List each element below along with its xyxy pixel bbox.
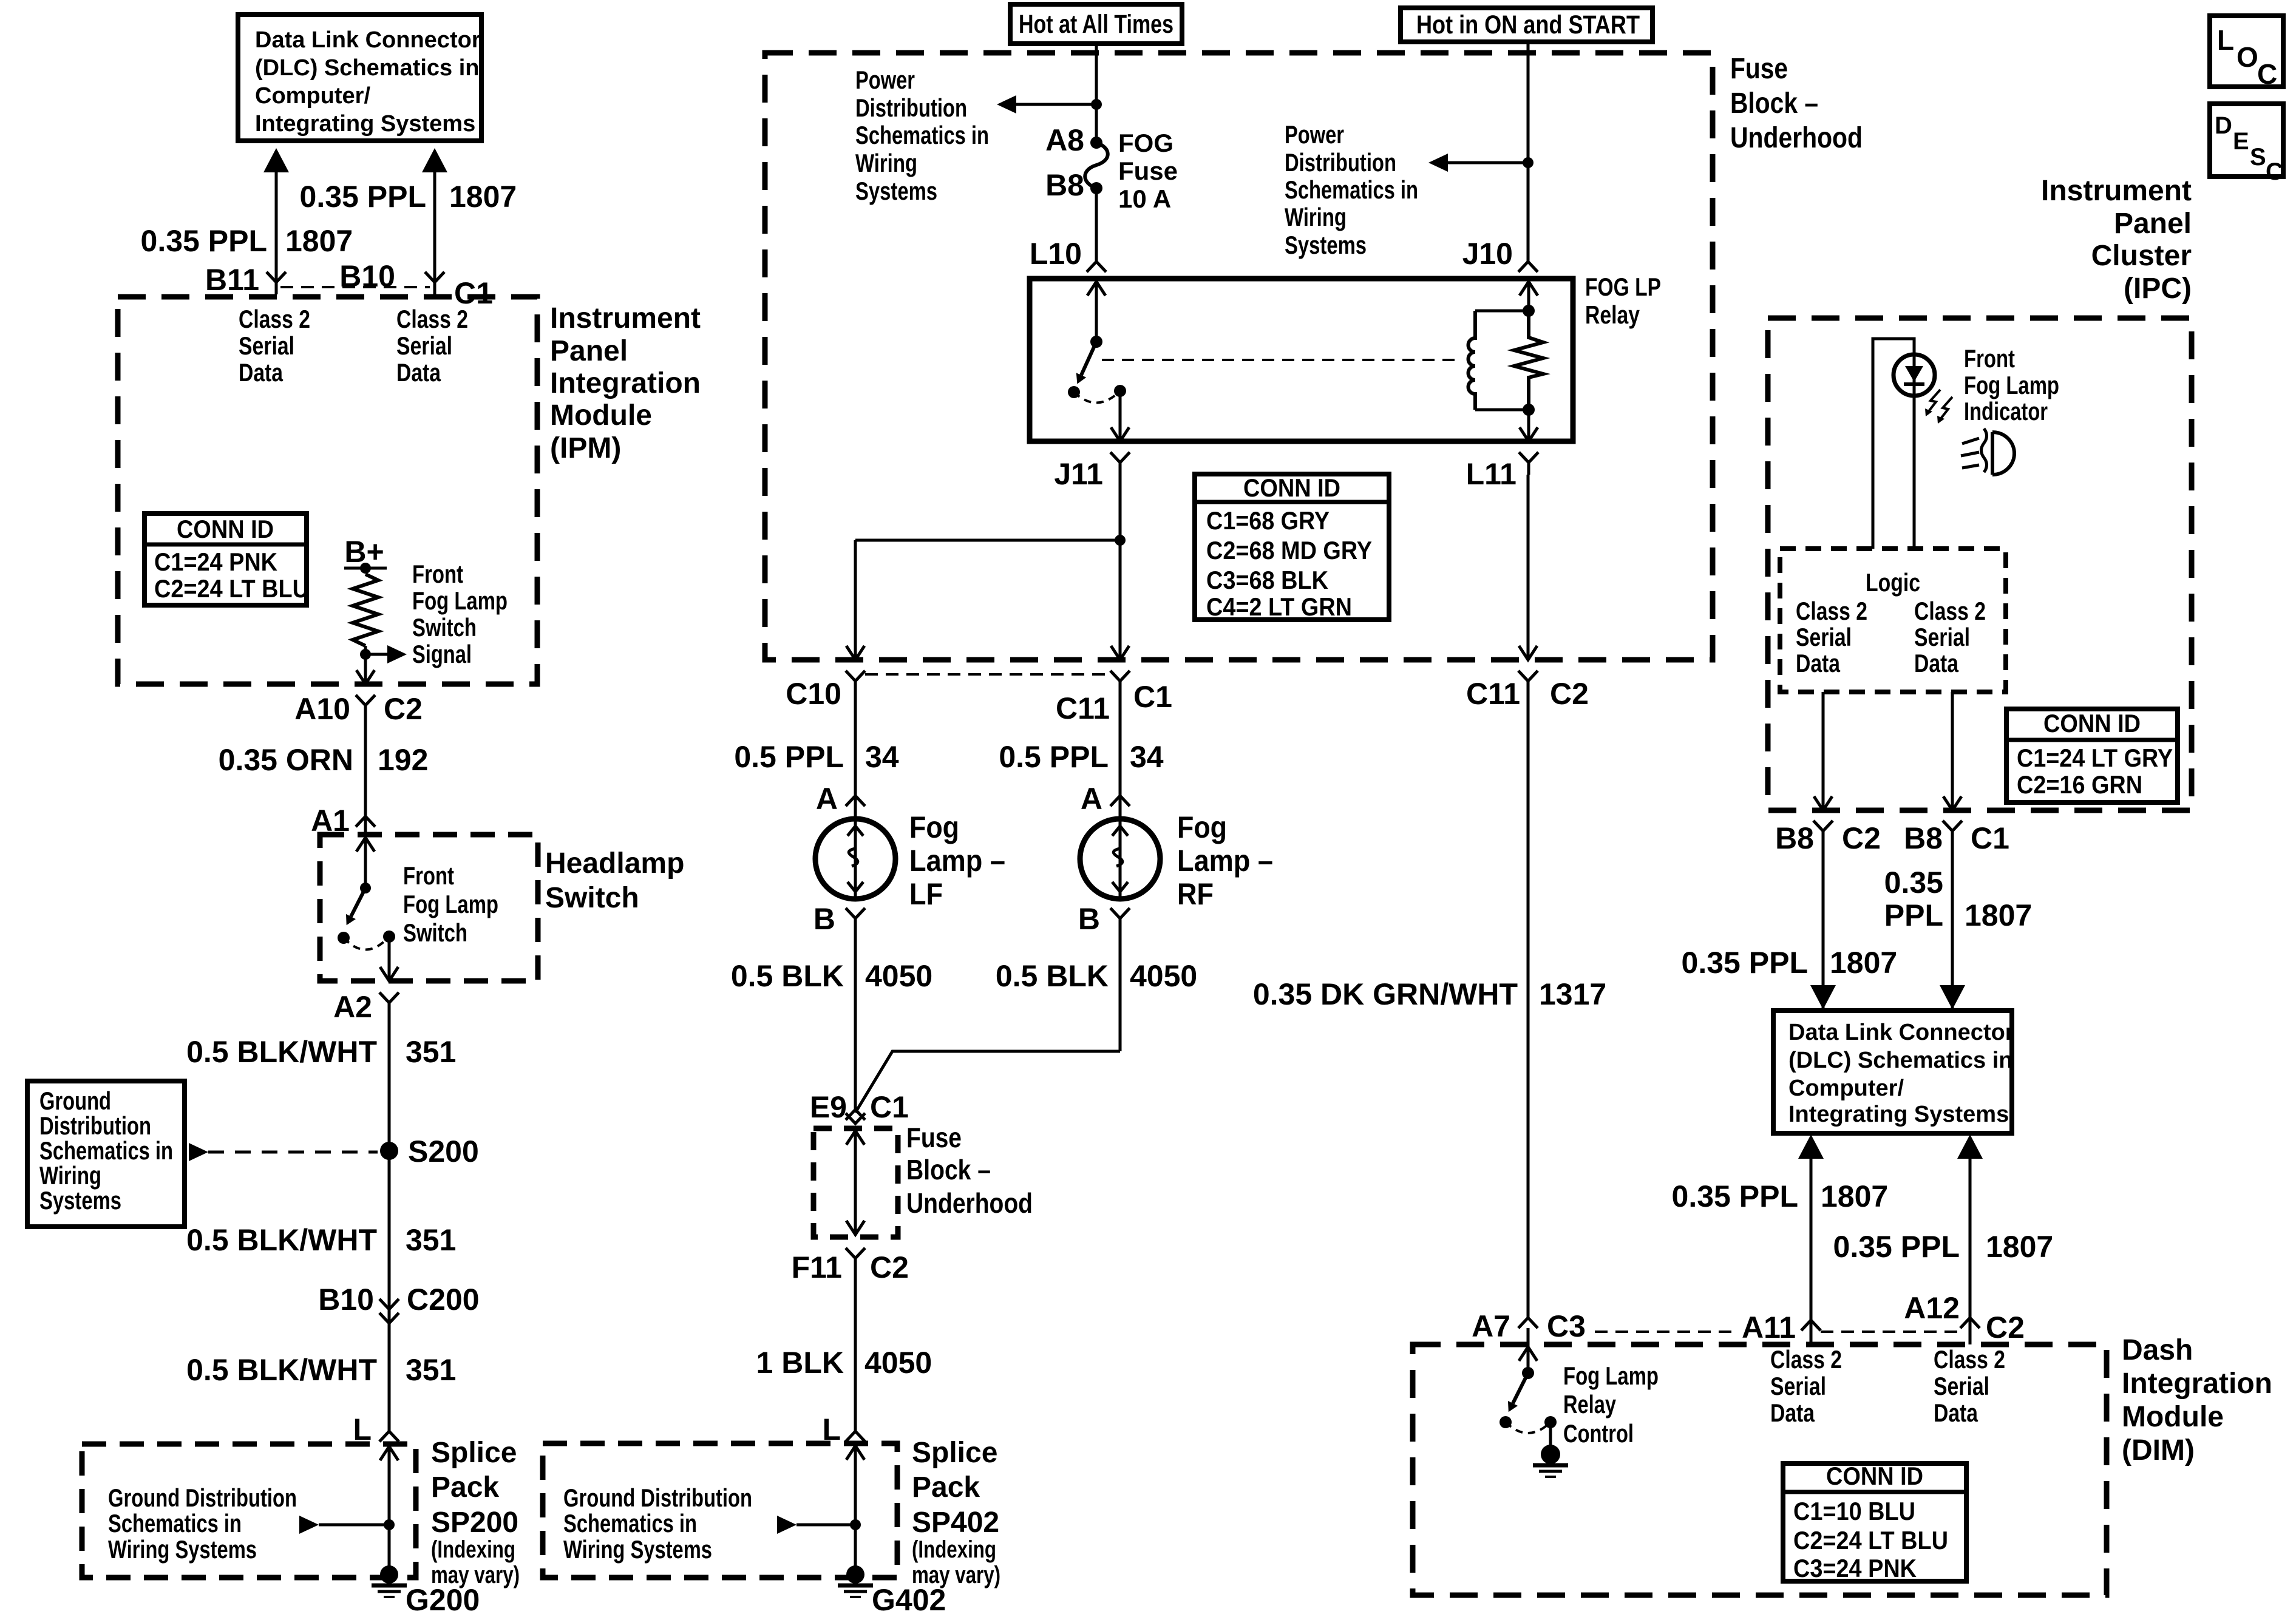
svg-text:0.5 PPL: 0.5 PPL	[734, 740, 844, 774]
svg-text:4050: 4050	[865, 959, 932, 993]
svg-text:Class 2: Class 2	[1770, 1345, 1842, 1374]
arrowhead into DLC box (left)	[1810, 985, 1836, 1009]
wire B11 to DLC (0.35 PPL 1807)	[275, 171, 278, 283]
svg-text:B10: B10	[318, 1283, 374, 1317]
wire A12 to DLC (0.35 PPL 1807)	[1969, 1159, 1972, 1344]
dashed wire to splice S200	[208, 1151, 378, 1154]
arrow at IPC border (to B8/C2)	[1814, 796, 1832, 810]
svg-text:C4=2 LT GRN: C4=2 LT GRN	[1206, 592, 1352, 621]
svg-text:Module: Module	[2122, 1401, 2224, 1433]
svg-text:Lamp –: Lamp –	[909, 844, 1005, 878]
connector F11/C2	[846, 1248, 865, 1270]
svg-text:LF: LF	[909, 877, 943, 911]
svg-text:C1=68 GRY: C1=68 GRY	[1206, 506, 1330, 535]
svg-text:Front: Front	[1964, 344, 2015, 373]
connector C200 lower half	[379, 1313, 399, 1323]
svg-text:(Indexing: (Indexing	[912, 1536, 996, 1563]
IPM CONN ID divider	[144, 543, 307, 547]
svg-text:0.5 BLK: 0.5 BLK	[731, 959, 844, 993]
junction power distribution branch (right)	[1523, 157, 1533, 168]
svg-text:Fog: Fog	[1177, 810, 1227, 844]
svg-text:Serial: Serial	[239, 331, 294, 360]
svg-text:Wiring: Wiring	[39, 1161, 101, 1190]
junction SP402	[850, 1519, 861, 1530]
box: Hot in ON and START	[1401, 8, 1652, 42]
svg-text:Front: Front	[412, 560, 463, 588]
splice S200	[380, 1142, 398, 1160]
fog lamp icon beams	[1961, 438, 1979, 468]
svg-text:Data Link Connector: Data Link Connector	[255, 27, 481, 53]
svg-text:Underhood: Underhood	[906, 1187, 1033, 1219]
box: Data Link Connector (DLC) reference, right	[1773, 1011, 2012, 1133]
svg-text:(Indexing: (Indexing	[431, 1536, 515, 1563]
svg-text:Panel: Panel	[550, 335, 628, 367]
box: LOC tab	[2210, 16, 2283, 87]
svg-text:Wiring Systems: Wiring Systems	[108, 1535, 257, 1564]
wire B10/C1 to DLC (0.35 PPL 1807)	[433, 171, 436, 283]
box: Hot at All Times	[1010, 4, 1182, 44]
svg-text:0.35 PPL: 0.35 PPL	[141, 224, 267, 258]
svg-text:Fog Lamp: Fog Lamp	[1563, 1361, 1659, 1390]
wire A11 to DLC (0.35 PPL 1807)	[1810, 1159, 1813, 1344]
svg-text:A10: A10	[294, 692, 350, 726]
dashed box: Headlamp Switch	[320, 835, 538, 981]
svg-text:A11: A11	[1742, 1310, 1796, 1344]
DIM switch contact right	[1544, 1416, 1557, 1428]
svg-text:C2=24 LT BLU: C2=24 LT BLU	[1793, 1526, 1948, 1554]
wire to power distribution reference (right)	[1448, 161, 1528, 164]
svg-text:Data: Data	[1770, 1398, 1815, 1427]
switch pivot (front fog lamp switch)	[360, 883, 371, 893]
svg-text:1807: 1807	[449, 180, 517, 214]
svg-text:Serial: Serial	[1796, 623, 1852, 651]
svg-text:0.35 PPL: 0.35 PPL	[1833, 1230, 1960, 1264]
svg-text:Computer/: Computer/	[1788, 1076, 1904, 1101]
svg-text:Fog Lamp: Fog Lamp	[1964, 371, 2059, 399]
svg-text:FOG: FOG	[1118, 129, 1173, 157]
svg-text:0.35 ORN: 0.35 ORN	[219, 743, 353, 777]
svg-text:Data: Data	[1796, 649, 1841, 677]
arrow at IPC border (to B8/C1)	[1943, 796, 1961, 810]
svg-text:Ground Distribution: Ground Distribution	[108, 1483, 297, 1512]
svg-text:Fuse: Fuse	[906, 1122, 962, 1153]
svg-text:0.35 PPL: 0.35 PPL	[1672, 1179, 1798, 1213]
svg-text:351: 351	[406, 1223, 456, 1257]
connector C10	[846, 671, 865, 693]
arrow at SP402 border (to L)	[846, 1446, 864, 1460]
arrow at fuse block border (to E9)	[846, 1131, 864, 1145]
thin dashed connector link B11-B10	[280, 286, 430, 288]
svg-text:Schematics in: Schematics in	[108, 1509, 242, 1537]
svg-text:E9: E9	[810, 1090, 847, 1124]
arrow at headlamp switch border (to A1)	[356, 838, 375, 852]
svg-text:1807: 1807	[1830, 946, 1897, 980]
wire relay switch feed	[1095, 282, 1098, 342]
B+ supply stub	[344, 567, 387, 570]
arrow at relay border (to L10)	[1087, 282, 1106, 296]
svg-text:Headlamp: Headlamp	[545, 847, 684, 880]
relay node bottom	[1523, 404, 1535, 416]
dashed box: Fuse Block - Underhood (ground path)	[813, 1128, 898, 1237]
svg-text:0.5 BLK/WHT: 0.5 BLK/WHT	[186, 1353, 377, 1387]
connector L10	[1087, 262, 1106, 272]
svg-text:Splice: Splice	[431, 1437, 517, 1469]
svg-text:Schematics in: Schematics in	[39, 1136, 173, 1165]
svg-text:Instrument: Instrument	[2041, 175, 2192, 207]
svg-text:1317: 1317	[1539, 977, 1606, 1011]
svg-text:RF: RF	[1177, 877, 1214, 911]
wire RF ground drop (0.5 BLK 4050)	[1119, 931, 1122, 1051]
svg-text:Cluster: Cluster	[2091, 240, 2192, 272]
wire Logic to B8/C2	[1822, 692, 1825, 810]
arrow at fuse block border (to F11)	[846, 1221, 864, 1235]
svg-text:(IPC): (IPC)	[2124, 273, 2192, 305]
svg-text:351: 351	[406, 1035, 456, 1069]
svg-text:C2: C2	[1986, 1310, 2025, 1344]
LF lamp filament	[849, 849, 858, 866]
svg-text:C2=24 LT BLU: C2=24 LT BLU	[154, 574, 309, 603]
svg-text:(DLC) Schematics in: (DLC) Schematics in	[255, 55, 480, 81]
wire Hot at All Times to fuse A8	[1095, 41, 1098, 143]
svg-text:(IPM): (IPM)	[550, 432, 621, 464]
svg-text:PPL: PPL	[1884, 898, 1943, 932]
wire relay to L11	[1527, 410, 1530, 441]
wire RF ground joins LF at E9	[855, 1051, 1120, 1113]
svg-text:B8: B8	[1904, 821, 1943, 855]
connector B8/C2	[1813, 821, 1833, 843]
wire switch to A2	[388, 937, 391, 981]
arrowhead from A11 into DLC	[1798, 1134, 1824, 1159]
connector B11 (IPM side)	[267, 272, 286, 294]
DIM switch arm	[1513, 1373, 1528, 1403]
svg-text:34: 34	[865, 740, 899, 774]
svg-text:192: 192	[378, 743, 428, 777]
svg-text:Lamp –: Lamp –	[1177, 844, 1273, 878]
svg-text:Instrument: Instrument	[550, 302, 701, 334]
svg-text:A: A	[816, 782, 838, 816]
fog lamp icon lamp body	[1992, 432, 2014, 475]
svg-text:A7: A7	[1472, 1309, 1510, 1343]
svg-text:C1: C1	[870, 1090, 909, 1124]
switch contact right	[383, 931, 395, 943]
svg-text:Serial: Serial	[396, 331, 452, 360]
svg-text:Fog Lamp: Fog Lamp	[403, 890, 498, 918]
svg-text:A2: A2	[333, 990, 372, 1024]
svg-text:Class 2: Class 2	[239, 305, 310, 333]
svg-text:Integration: Integration	[550, 367, 701, 399]
connector C11/C1	[1110, 671, 1130, 693]
svg-text:CONN ID: CONN ID	[1826, 1462, 1923, 1490]
arrow at fuse block border (to C1)	[1111, 646, 1129, 660]
wire signal node to IPM border	[364, 654, 367, 684]
IPC CONN ID box	[2006, 709, 2178, 802]
relay coil	[1469, 311, 1476, 410]
junction J11/C10 branch	[1115, 535, 1126, 546]
svg-text:may vary): may vary)	[431, 1562, 520, 1588]
arrow at fuse block border (to C2)	[1519, 646, 1537, 660]
relay switch contact left	[1068, 386, 1080, 398]
svg-text:Hot in ON and START: Hot in ON and START	[1416, 10, 1640, 39]
IPM CONN ID box	[144, 514, 307, 605]
LED ray 1	[1927, 390, 1940, 413]
svg-text:Switch: Switch	[412, 613, 477, 642]
svg-text:Distribution: Distribution	[39, 1111, 151, 1140]
RF lamp filament	[1113, 849, 1123, 866]
dashed box: Instrument Panel Cluster (IPC)	[1768, 318, 2192, 810]
DIM CONN ID box	[1783, 1463, 1966, 1581]
svg-text:C200: C200	[407, 1283, 480, 1317]
wire L11 to C2 connector	[1527, 475, 1530, 660]
svg-text:Relay: Relay	[1563, 1390, 1616, 1419]
dashed box: Instrument Panel Integration Module (IPM)	[118, 297, 537, 684]
svg-text:Switch: Switch	[545, 882, 639, 914]
dashed box: Fuse Block - Underhood	[765, 53, 1713, 660]
svg-text:C2=68 MD GRY: C2=68 MD GRY	[1206, 536, 1372, 564]
svg-text:Module: Module	[550, 399, 652, 432]
connector J10	[1518, 262, 1538, 272]
arrowhead into DLC box (right)	[1940, 985, 1965, 1009]
svg-text:4050: 4050	[1130, 959, 1197, 993]
dashed box: Dash Integration Module (DIM)	[1413, 1344, 2107, 1595]
wire Hot in ON and START to J10	[1527, 42, 1530, 262]
svg-text:CONN ID: CONN ID	[177, 515, 274, 543]
svg-text:C2: C2	[870, 1250, 909, 1284]
connector A1 (headlamp switch)	[356, 816, 375, 827]
svg-text:J10: J10	[1462, 237, 1513, 271]
switch arm front fog lamp switch	[351, 888, 365, 917]
svg-text:F11: F11	[792, 1250, 842, 1284]
svg-text:Systems: Systems	[855, 177, 937, 205]
wire LF to E9 (0.5 BLK 4050)	[854, 931, 857, 1109]
IPC CONN ID divider	[2006, 738, 2178, 742]
svg-text:B: B	[1078, 902, 1100, 936]
wire L to G402	[854, 1442, 857, 1575]
svg-text:Indicator: Indicator	[1964, 397, 2048, 425]
svg-text:Splice: Splice	[912, 1437, 997, 1469]
wire B8/C1 to DLC (0.35 PPL 1807)	[1951, 843, 1954, 1009]
connector C11/C2	[1518, 671, 1538, 693]
svg-text:0.35 DK GRN/WHT: 0.35 DK GRN/WHT	[1253, 977, 1518, 1011]
DIM CONN ID divider	[1783, 1490, 1966, 1494]
switch contact left	[338, 932, 350, 944]
svg-text:C: C	[2257, 58, 2277, 90]
ground G402	[846, 1565, 864, 1584]
arrow at relay border (to J11)	[1111, 427, 1129, 441]
box: Data Link Connector (DLC) reference, top-left	[238, 15, 481, 141]
svg-text:A8: A8	[1045, 123, 1084, 157]
svg-text:Distribution: Distribution	[855, 93, 967, 122]
RF lamp internal leads	[1112, 821, 1128, 898]
arrowhead to S200	[189, 1143, 208, 1161]
svg-text:Power: Power	[855, 66, 915, 94]
svg-text:Control: Control	[1563, 1419, 1634, 1448]
svg-text:C11: C11	[1056, 691, 1110, 725]
relay coil bottom rail	[1475, 408, 1529, 412]
wire DIM switch to ground	[1549, 1422, 1552, 1446]
svg-text:L10: L10	[1030, 237, 1082, 271]
LF lamp internal leads	[847, 821, 863, 898]
arrow at SP200 border (to L)	[380, 1446, 398, 1460]
svg-text:A12: A12	[1904, 1291, 1960, 1325]
svg-text:0.35: 0.35	[1884, 866, 1943, 900]
wire Logic to B8/C1	[1951, 692, 1954, 810]
svg-text:Fuse: Fuse	[1118, 157, 1178, 185]
switch travel dashed arc	[344, 937, 389, 950]
svg-text:Fog Lamp: Fog Lamp	[412, 586, 508, 615]
wire C2 to A7 (0.35 DK GRN/WHT 1317)	[1527, 693, 1530, 1318]
wire through fuse block	[854, 1131, 857, 1235]
svg-text:Pack: Pack	[431, 1471, 499, 1503]
svg-text:0.5 PPL: 0.5 PPL	[999, 740, 1109, 774]
wire J10 into relay	[1527, 282, 1530, 311]
wire L to G200	[388, 1442, 391, 1575]
svg-text:Systems: Systems	[39, 1186, 121, 1215]
svg-text:Data: Data	[396, 358, 441, 387]
svg-text:CONN ID: CONN ID	[1243, 473, 1340, 502]
connector A7/C3	[1518, 1318, 1538, 1328]
arrow at fuse block border (to C10)	[846, 646, 864, 660]
wire A10 to A1 (0.35 ORN 192)	[364, 717, 367, 836]
svg-text:Panel: Panel	[2114, 208, 2192, 240]
relay switch travel dashed arc	[1074, 391, 1120, 403]
arrow at DIM border (to A7)	[1519, 1347, 1537, 1361]
svg-text:may vary): may vary)	[912, 1562, 1000, 1588]
svg-text:C2: C2	[384, 692, 423, 726]
fog lamp icon wavy line	[1982, 429, 1987, 472]
dashed box: Splice Pack SP200	[82, 1444, 416, 1578]
svg-text:34: 34	[1130, 740, 1164, 774]
connector B8/C1	[1943, 821, 1962, 843]
connector A12/C2	[1960, 1318, 1980, 1328]
svg-text:(DIM): (DIM)	[2122, 1434, 2195, 1466]
wire SP402 internal	[796, 1524, 855, 1527]
wire branch to C10	[855, 539, 1120, 542]
connector B (RF)	[1110, 908, 1130, 931]
arrow at IPM border (to A10)	[356, 670, 375, 684]
ground G200	[380, 1565, 398, 1584]
svg-text:D: D	[2215, 112, 2232, 139]
relay switch contact right	[1114, 385, 1126, 397]
fuse terminal A8	[1090, 137, 1102, 149]
junction SP200	[384, 1519, 395, 1530]
svg-text:C1=24 LT GRY: C1=24 LT GRY	[2017, 744, 2173, 772]
svg-text:Serial: Serial	[1934, 1372, 1989, 1400]
svg-text:Systems: Systems	[1285, 231, 1367, 259]
svg-text:C10: C10	[786, 677, 841, 711]
svg-text:B8: B8	[1775, 821, 1814, 855]
LED cathode bar	[1904, 382, 1924, 386]
arrow at relay border (to L11)	[1520, 427, 1538, 441]
svg-text:1807: 1807	[1821, 1179, 1888, 1213]
svg-text:Data Link Connector: Data Link Connector	[1788, 1020, 2014, 1045]
svg-text:C3: C3	[1547, 1309, 1586, 1343]
svg-text:C1=24 PNK: C1=24 PNK	[154, 547, 277, 576]
connector B (LF)	[846, 908, 865, 931]
DIM switch contact left	[1500, 1416, 1512, 1428]
dashed box: Splice Pack SP402	[543, 1443, 897, 1578]
svg-text:C3=24 PNK: C3=24 PNK	[1793, 1554, 1917, 1582]
svg-text:Integration: Integration	[2122, 1368, 2272, 1400]
box: Ground Distribution reference (left)	[27, 1081, 185, 1227]
arrowhead from A12 into DLC	[1957, 1134, 1983, 1159]
svg-text:Fuse: Fuse	[1730, 53, 1788, 85]
junction power distribution branch (left)	[1091, 99, 1102, 110]
svg-text:Front: Front	[403, 861, 454, 890]
relay resistor	[1514, 311, 1543, 410]
svg-text:Class 2: Class 2	[396, 305, 468, 333]
arrowhead power distribution (left)	[997, 95, 1016, 114]
svg-text:Relay: Relay	[1585, 300, 1640, 329]
wire to power distribution reference (left)	[1016, 103, 1096, 106]
svg-text:C1: C1	[1971, 821, 2009, 855]
fuse FOG 10A element	[1085, 143, 1108, 188]
svg-text:Data: Data	[1934, 1398, 1978, 1427]
svg-text:0.35 PPL: 0.35 PPL	[300, 180, 426, 214]
connector C200 upper half	[379, 1299, 399, 1309]
svg-text:Block –: Block –	[1730, 87, 1818, 120]
svg-text:Schematics in: Schematics in	[1285, 175, 1418, 204]
svg-text:Underhood: Underhood	[1730, 122, 1863, 154]
svg-text:Wiring: Wiring	[1285, 203, 1347, 231]
DIM switch pivot (fog lamp relay control)	[1522, 1367, 1534, 1379]
box: FOG LP Relay	[1030, 279, 1573, 441]
thin dashed connector link A7-A11	[1595, 1331, 1737, 1333]
svg-text:Serial: Serial	[1770, 1372, 1826, 1400]
svg-text:Class 2: Class 2	[1914, 597, 1986, 625]
svg-text:C3=68 BLK: C3=68 BLK	[1206, 566, 1328, 594]
svg-text:4050: 4050	[864, 1346, 932, 1380]
dashed box: Logic (IPC)	[1780, 549, 2006, 692]
svg-text:L: L	[2217, 24, 2234, 56]
wire C10 to Fog Lamp LF (0.5 PPL 34)	[854, 693, 857, 819]
svg-text:0.35 PPL: 0.35 PPL	[1682, 946, 1808, 980]
LED front fog lamp indicator	[1894, 354, 1935, 396]
svg-text:0.5 BLK/WHT: 0.5 BLK/WHT	[186, 1035, 377, 1069]
svg-text:Wiring: Wiring	[855, 149, 917, 177]
svg-text:1807: 1807	[1965, 898, 2032, 932]
svg-text:Block –: Block –	[906, 1154, 991, 1185]
svg-text:A: A	[1081, 782, 1102, 816]
wire fuse B8 to L10	[1095, 188, 1098, 262]
connector A2	[379, 992, 399, 1015]
svg-text:C2=16 GRN: C2=16 GRN	[2017, 770, 2142, 799]
resistor R (front fog lamp switch pull-up)	[353, 574, 378, 646]
node front fog lamp switch signal	[360, 649, 371, 660]
svg-text:1807: 1807	[285, 224, 353, 258]
svg-text:Data: Data	[1914, 649, 1959, 677]
svg-text:Logic: Logic	[1866, 568, 1920, 597]
svg-text:Ground: Ground	[39, 1086, 111, 1115]
connector B10/C1 (IPM side)	[425, 272, 444, 294]
lamp: Fog Lamp - LF	[815, 819, 895, 899]
connector L (SP402)	[846, 1431, 865, 1442]
svg-text:Hot at All Times: Hot at All Times	[1019, 10, 1173, 39]
fuse block CONN ID box	[1195, 474, 1389, 620]
connector J11	[1110, 452, 1130, 475]
connector A (RF)	[1110, 796, 1130, 806]
fuse terminal B8	[1090, 182, 1102, 194]
svg-text:Data: Data	[239, 358, 284, 387]
svg-text:E: E	[2233, 128, 2249, 155]
svg-text:C1=10 BLU: C1=10 BLU	[1793, 1497, 1915, 1525]
arrowhead SP402 internal	[777, 1516, 796, 1534]
svg-text:Class 2: Class 2	[1796, 597, 1867, 625]
lamp: Fog Lamp - RF	[1080, 819, 1160, 899]
svg-text:C2: C2	[1550, 677, 1589, 711]
svg-text:S200: S200	[408, 1134, 479, 1168]
relay node top	[1523, 305, 1535, 317]
svg-text:Dash: Dash	[2122, 1334, 2193, 1366]
